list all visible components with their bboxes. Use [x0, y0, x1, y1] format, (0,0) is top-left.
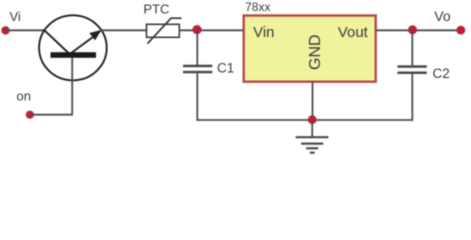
capacitor C1 bottom plate	[183, 71, 212, 74]
svg-text:Vi: Vi	[10, 9, 21, 24]
svg-text:Vo: Vo	[434, 8, 451, 24]
junction node at C2	[408, 25, 417, 34]
wire C2 to ground rail	[411, 74, 413, 121]
svg-text:C2: C2	[433, 66, 450, 81]
wire regulator Vout to Vo	[376, 29, 461, 31]
ground symbol	[296, 137, 329, 153]
wire C1 to ground rail	[196, 73, 198, 121]
svg-text:on: on	[17, 88, 31, 103]
node on terminal dot	[26, 111, 34, 119]
wire junction down to C2	[411, 30, 413, 66]
svg-text:78xx: 78xx	[245, 0, 270, 14]
svg-text:Vin: Vin	[253, 24, 274, 41]
svg-text:PTC: PTC	[143, 1, 169, 16]
capacitor C2 bottom plate	[398, 72, 427, 75]
transistor Q1 collector diagonal	[44, 30, 68, 53]
regulator U1 78xx body	[244, 16, 376, 82]
junction node at ground	[308, 115, 317, 124]
node Vi terminal dot	[1, 26, 9, 34]
svg-text:GND: GND	[307, 34, 324, 70]
ground rail wire	[197, 119, 414, 121]
wire PTC to regulator Vin	[179, 29, 243, 31]
transistor Q1 base lead wire	[71, 58, 73, 115]
svg-text:C1: C1	[217, 60, 234, 75]
capacitor C1 top plate	[183, 65, 212, 68]
thermistor PTC body	[147, 24, 180, 37]
wire junction to ground symbol	[311, 120, 313, 137]
wire transistor to PTC	[101, 29, 148, 31]
wire junction down to C1	[196, 30, 198, 65]
junction node after PTC	[192, 25, 201, 34]
thermistor PTC diagonal stroke	[147, 18, 181, 44]
wire Vi to transistor	[6, 29, 46, 31]
capacitor C2 top plate	[398, 65, 427, 68]
transistor Q1 emitter diagonal with arrow	[71, 35, 97, 54]
wire on to transistor base	[30, 114, 73, 116]
node Vo terminal dot	[456, 26, 465, 35]
wire regulator GND pin down to rail	[312, 82, 314, 120]
transistor Q1 body circle	[39, 15, 107, 80]
svg-text:Vout: Vout	[338, 24, 369, 41]
transistor Q1 base bar	[51, 52, 97, 58]
